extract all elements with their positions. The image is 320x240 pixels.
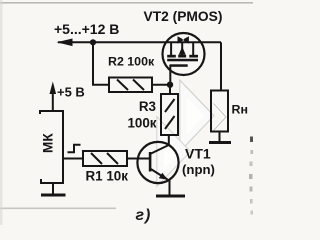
МК ground stub	[52, 183, 54, 194]
wire: R1 to VT1 base	[127, 158, 150, 160]
svg-text:100к: 100к	[127, 115, 156, 130]
wire: Rн to ground	[219, 132, 221, 142]
ground under VT1	[156, 195, 185, 198]
ground under МК	[41, 194, 66, 197]
svg-text:VT2 (PMOS): VT2 (PMOS)	[144, 9, 223, 24]
pulse edge symbol at МК output	[68, 145, 81, 153]
gate lead	[169, 65, 171, 85]
resistor R2	[109, 78, 152, 93]
gate bar	[170, 64, 188, 67]
svg-text:+5 В: +5 В	[57, 85, 85, 100]
transistor VT1 npn	[137, 142, 178, 183]
source lead	[170, 42, 172, 55]
resistor R3	[161, 94, 178, 135]
wire: gate node down to R3 top	[169, 85, 171, 94]
wire: rail drop to R2 left	[93, 42, 109, 84]
МК block (partial box)	[39, 110, 64, 184]
svg-text:R1 10к: R1 10к	[86, 169, 129, 184]
wire: МК output to R1	[63, 158, 83, 160]
watermark triangle 2	[160, 125, 186, 179]
svg-text:(npn): (npn)	[182, 162, 215, 177]
wire: VT2 drain down to Rн	[220, 42, 222, 90]
svg-text:МК: МК	[41, 133, 56, 153]
svg-text:г): г)	[136, 207, 152, 224]
watermark triangle 1	[183, 88, 210, 144]
emitter arrowhead	[159, 173, 168, 180]
source-body bowtie arrow	[178, 36, 189, 43]
wire: R2 right to gate node	[152, 84, 170, 86]
wire: R3 bottom to VT1 collector	[168, 135, 170, 146]
channel contact dashes	[167, 55, 176, 58]
wire: +V rail from arrow to VT2 and drain corner	[58, 41, 221, 43]
power arrow +5V into МК	[52, 88, 54, 110]
power arrow left on rail	[57, 39, 73, 47]
ground under Rн	[209, 141, 231, 144]
emitter diagonal	[150, 169, 168, 180]
resistor R1	[83, 151, 127, 166]
svg-text:R2 100к: R2 100к	[108, 55, 155, 69]
collector diagonal	[150, 145, 169, 154]
resistor Rн (load)	[211, 91, 228, 132]
svg-text:R3: R3	[139, 99, 156, 114]
wire: emitter to ground	[169, 180, 171, 196]
base bar	[149, 152, 152, 172]
node: rail junction dot	[90, 39, 96, 45]
drain lead	[192, 42, 194, 55]
watermark chevron inside Rн	[214, 104, 227, 131]
transistor VT2 PMOS	[163, 33, 205, 85]
svg-text:Rн: Rн	[232, 103, 248, 117]
body lead with arrow	[181, 42, 183, 55]
channel bar	[167, 59, 198, 62]
svg-text:+5...+12 В: +5...+12 В	[54, 21, 119, 37]
node: gate junction dot	[167, 82, 173, 88]
svg-text:VT1: VT1	[185, 146, 211, 162]
